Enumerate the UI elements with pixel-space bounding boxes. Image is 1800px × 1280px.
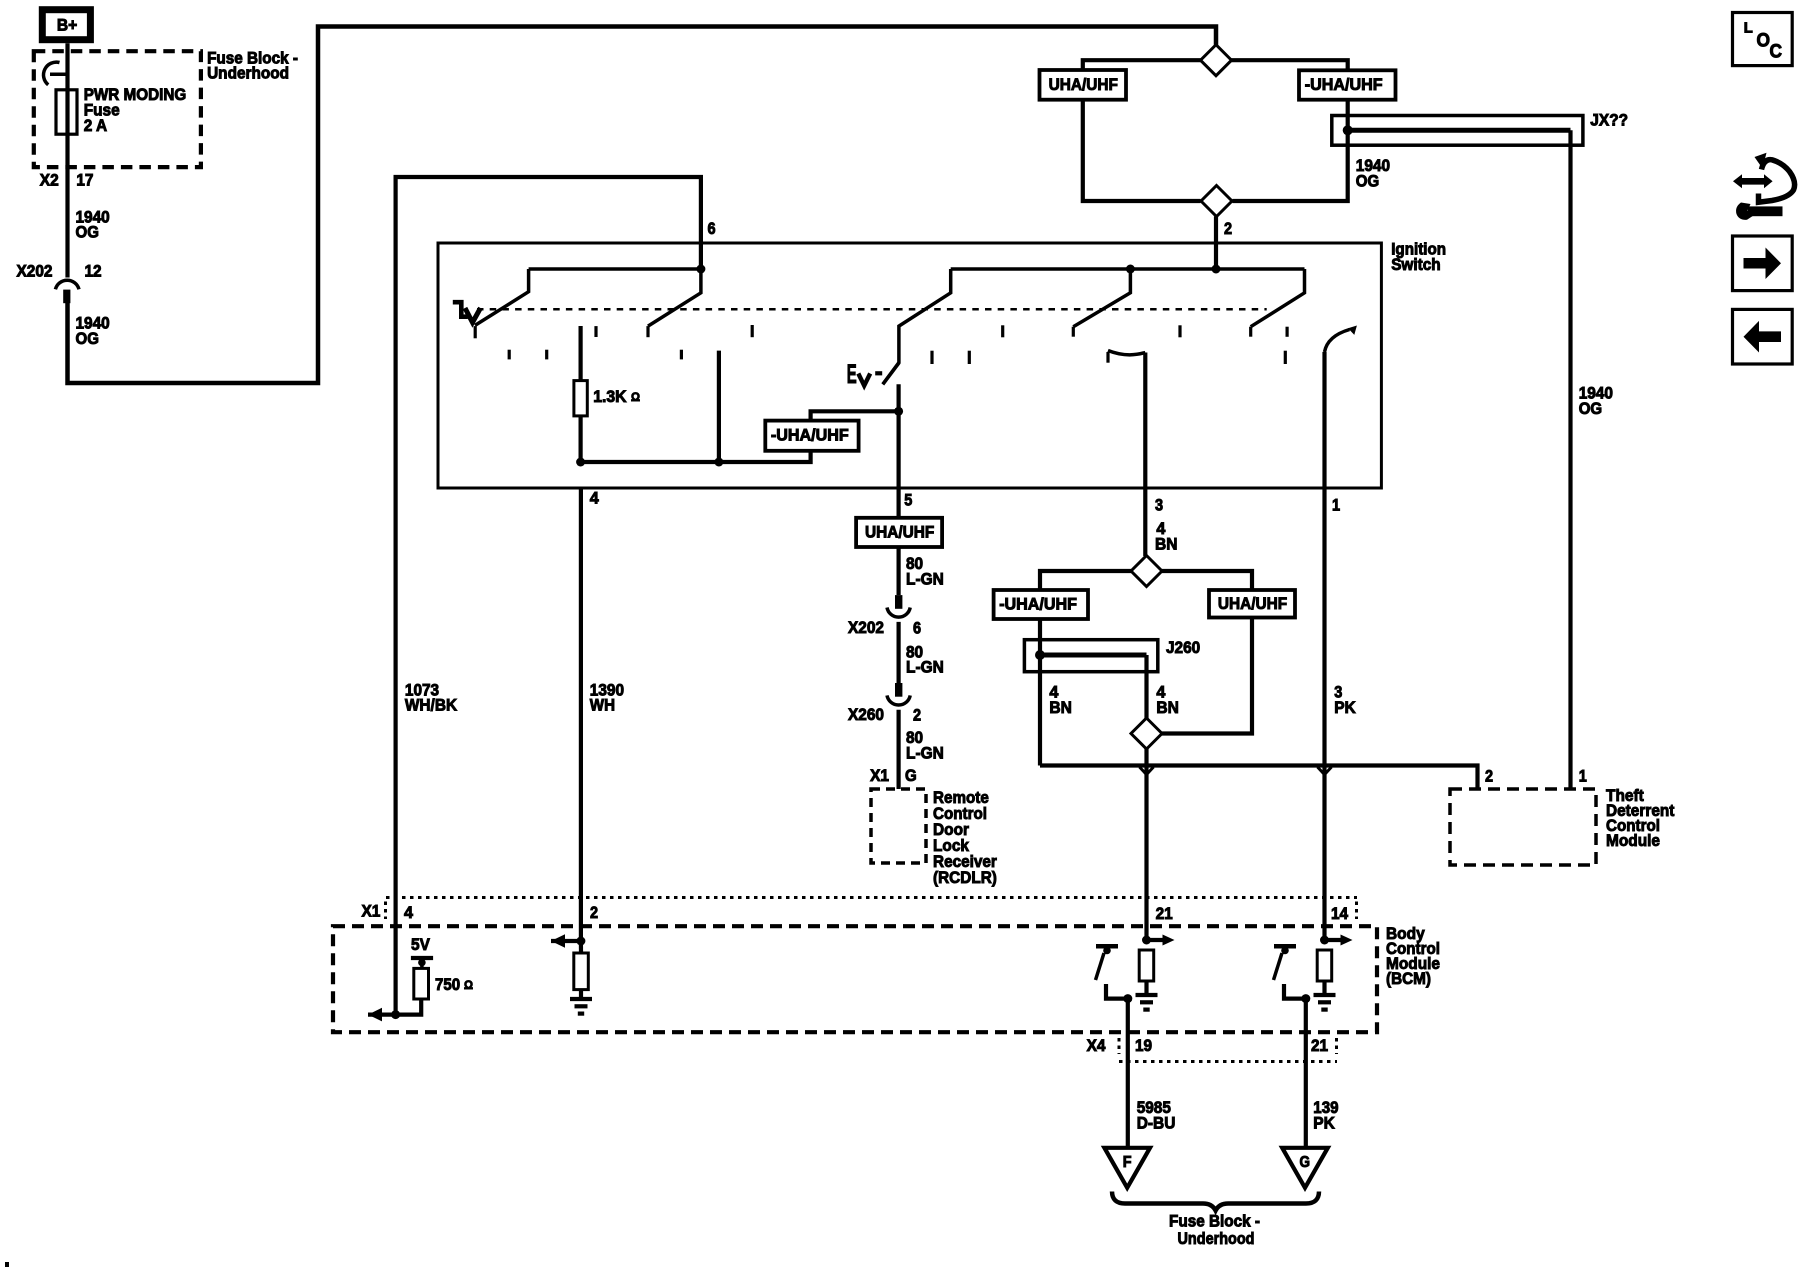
svg-text:G: G — [1300, 1154, 1311, 1171]
svg-text:1.3K: 1.3K — [593, 387, 627, 406]
label Body Control Module (BCM) — [1386, 924, 1440, 988]
svg-text:OG: OG — [76, 329, 99, 348]
resistor (pin 14) — [1317, 950, 1332, 981]
svg-text:-UHA/UHF: -UHA/UHF — [999, 595, 1077, 614]
wire JX bar down to theft module pin 1 — [1568, 130, 1572, 789]
svg-text:PK: PK — [1334, 698, 1356, 717]
-UHA/UHF option box (top) — [1299, 70, 1396, 99]
wire to X202 — [896, 547, 900, 595]
wire through fuse to X2 — [65, 90, 69, 278]
BCM pin14: wire junction — [1320, 936, 1329, 945]
wire ignition pin 4 down to BCM pin 2 — [579, 488, 583, 941]
resistor lead — [1322, 981, 1326, 993]
svg-text:5V: 5V — [411, 935, 430, 954]
wire X202 to X260 — [896, 622, 900, 683]
svg-text:Underhood: Underhood — [1178, 1229, 1255, 1248]
svg-text:OG: OG — [1356, 172, 1379, 191]
svg-text:Fuse Block -: Fuse Block - — [1169, 1211, 1260, 1230]
ignition switch box — [438, 243, 1381, 488]
svg-text:OG: OG — [1579, 399, 1602, 418]
svg-text:BN: BN — [1156, 698, 1179, 717]
wire top diamond left to UHA/UHF — [1083, 60, 1201, 70]
svg-text:17: 17 — [76, 170, 93, 189]
label Theft Deterrent Control Module — [1606, 786, 1675, 850]
connector X260 pin 2 (inline) — [887, 683, 910, 705]
LOC reference box — [1733, 13, 1793, 66]
svg-text:2 A: 2 A — [84, 116, 107, 135]
hotlink scribble icon — [1733, 153, 1795, 220]
battery feed B+ — [42, 10, 90, 40]
X4 dotted separator right — [1335, 1038, 1338, 1054]
theft deterrent control module dashed box — [1450, 789, 1596, 865]
svg-text:OG: OG — [76, 223, 99, 242]
svg-text:F: F — [1123, 1154, 1132, 1171]
wire BCM X4 pin19 down to F — [1126, 999, 1130, 1148]
svg-text:Switch: Switch — [1391, 255, 1441, 274]
contact ticks row 1 — [594, 326, 597, 337]
labels X1 G (RCDLR pin) — [870, 766, 917, 785]
svg-text:G: G — [905, 766, 917, 785]
resistor 1.3K — [574, 381, 587, 416]
junction bus bar J260 — [1024, 640, 1157, 672]
wire B+ down to fuse — [65, 43, 69, 90]
arrow out (pin 4) — [368, 1008, 382, 1022]
pin 5 wire inside box — [896, 384, 900, 488]
label 80 L-GN (3) — [906, 728, 944, 762]
svg-text:2: 2 — [1224, 219, 1232, 238]
wire lower diamond to ignition switch pin 2 — [1214, 217, 1218, 270]
label Remote Control Door Lock Receiver (RCDLR) — [933, 788, 997, 887]
splice diamond (top) — [1201, 45, 1232, 76]
labels X260 2 — [848, 705, 921, 725]
ground (pin 14) — [1314, 993, 1336, 997]
splice diamond (upper right, to ignition pin 2) — [1201, 186, 1232, 217]
X1 dotted separator — [384, 902, 387, 920]
svg-text:X1: X1 — [362, 902, 381, 921]
svg-text:6: 6 — [913, 619, 921, 638]
svg-text:21: 21 — [1156, 904, 1173, 923]
UHA/UHF option box (middle) — [1209, 590, 1295, 618]
labels X202 12 (left) — [17, 261, 102, 280]
fuse clip hook — [44, 62, 60, 85]
svg-text:E: E — [847, 359, 857, 389]
wire diamond left to -UHA/UHF (middle) — [1040, 571, 1131, 590]
svg-text:2: 2 — [590, 903, 598, 922]
back arrow box — [1733, 309, 1793, 364]
off-page triangle G — [1282, 1148, 1328, 1188]
label 1940 OG (upper left) — [76, 207, 110, 241]
center rotary contact arc (pin 3) — [1108, 351, 1145, 355]
driver switch (pin 21) — [1096, 946, 1133, 1003]
pin2 signal arrow — [551, 939, 581, 943]
spring return arc with arrow (pin 1) — [1325, 330, 1350, 353]
wire -UHA/UHF down into J260 — [1038, 619, 1042, 766]
label 80 L-GN (2) — [906, 642, 944, 676]
theft bus wire — [1040, 766, 1478, 790]
connector X202 pin 6 (inline, middle) — [887, 595, 910, 617]
connector X4 dotted row — [1119, 1060, 1337, 1063]
wire X202 down, right, and up to top bus — [68, 27, 1217, 384]
label 1073 WH/BK — [405, 680, 458, 714]
svg-text:1: 1 — [1332, 496, 1340, 515]
svg-text:UHA/UHF: UHA/UHF — [1218, 594, 1287, 613]
fuse PWR MODING 2A body — [56, 90, 77, 134]
switch lever 5 (right) — [1251, 269, 1305, 327]
svg-text:O: O — [1757, 31, 1771, 52]
svg-text:X202: X202 — [17, 261, 53, 280]
page period mark — [5, 1262, 9, 1267]
UHA/UHF option box (pin 5) — [856, 518, 942, 547]
ground (pin 2) — [570, 997, 592, 1001]
label PWR MODING Fuse 2 A — [84, 85, 187, 135]
driver switch (pin 14) — [1274, 946, 1311, 1003]
body control module dashed box — [333, 926, 1377, 1032]
pin 3 wire inside box — [1143, 353, 1147, 489]
Ev position symbol — [847, 359, 883, 389]
pin14 signal arrow — [1325, 938, 1342, 942]
ground (pin 21) — [1136, 993, 1158, 997]
svg-text:UHA/UHF: UHA/UHF — [1049, 75, 1118, 94]
svg-text:L: L — [1744, 20, 1753, 37]
lever 1 contact tick — [474, 326, 477, 338]
wire X260 to RCDLR — [896, 710, 900, 789]
lever 5 contact tick — [1249, 327, 1252, 337]
BCM pin2: wire down — [579, 941, 583, 953]
ignition internal top bus (right group) — [951, 267, 1305, 271]
svg-text:2: 2 — [1485, 767, 1493, 786]
X4 dotted separator left — [1118, 1038, 1121, 1054]
svg-text:1: 1 — [1579, 767, 1587, 786]
svg-text:5: 5 — [904, 491, 912, 510]
lever 4 contact tick — [1072, 327, 1075, 337]
contact ticks row 2 — [508, 350, 511, 360]
svg-text:WH: WH — [590, 696, 615, 715]
label 1940 OG (lower left) — [76, 314, 110, 348]
connector X1 dotted row — [386, 896, 1357, 899]
svg-text:Module: Module — [1606, 831, 1660, 850]
resistor (pin 2) — [574, 953, 589, 990]
svg-text:JX??: JX?? — [1590, 111, 1628, 130]
UHA/UHF option box (top) — [1040, 70, 1127, 100]
svg-text:21: 21 — [1311, 1036, 1328, 1055]
resistor lead to arrow line — [368, 999, 421, 1015]
switch lever 3 (to Ev contact) — [883, 269, 951, 384]
label Fuse Block - Underhood (top) — [207, 49, 298, 83]
svg-text:6: 6 — [708, 219, 716, 238]
label 1.3K ohm — [593, 387, 640, 406]
-UHA/UHF option box (middle) — [994, 590, 1088, 619]
switch lever 4 (center) — [1073, 269, 1130, 327]
wire J260 down to diamond 2 — [1144, 655, 1148, 719]
svg-text:X2: X2 — [40, 170, 59, 189]
svg-text:BN: BN — [1155, 534, 1178, 553]
BCM pin21: wire junction — [1142, 936, 1151, 945]
wire top diamond right to -UHA/UHF — [1232, 60, 1348, 70]
wire diamond 2 down across bus to BCM pin 21 — [1144, 748, 1148, 940]
wire UHA/UHF (middle) down to diamond 2 — [1162, 618, 1252, 734]
RCDLR dashed box — [871, 789, 926, 863]
switch lever 1 — [475, 269, 529, 325]
svg-text:L-GN: L-GN — [906, 570, 944, 589]
svg-text:UHA/UHF: UHA/UHF — [865, 522, 934, 541]
Ev moving contact lever — [883, 363, 899, 385]
wire -UHA/UHF down through JX bar to lower diamond — [1233, 100, 1348, 201]
svg-text:(BCM): (BCM) — [1386, 969, 1431, 988]
label 139 PK — [1313, 1098, 1338, 1132]
splice diamond (lower) — [1131, 718, 1162, 749]
internal bus to -UHA/UHF — [581, 451, 811, 462]
label 5985 D-BU — [1137, 1098, 1176, 1132]
wire ignition pin 5 down — [896, 488, 900, 518]
resistor lead — [1144, 981, 1148, 993]
label 1940 OG (below -UHA/UHF) — [1356, 156, 1390, 190]
resistor 1.3K leg wire — [578, 326, 582, 462]
svg-text:3: 3 — [1155, 496, 1163, 515]
label 3 PK — [1334, 683, 1356, 717]
svg-text:WH/BK: WH/BK — [405, 696, 458, 715]
ignition dashed travel line — [477, 308, 1267, 311]
splice diamond (pin 3) — [1131, 556, 1162, 587]
fuse block underhood dashed box — [34, 51, 201, 167]
label 1390 WH — [590, 680, 624, 714]
off-page triangle F — [1104, 1148, 1150, 1188]
svg-text:PK: PK — [1313, 1113, 1335, 1132]
svg-text:4: 4 — [590, 488, 600, 507]
svg-text:Ω: Ω — [631, 390, 640, 404]
svg-text:X202: X202 — [848, 618, 884, 637]
label 4 BN (pin 3 upper) — [1155, 519, 1178, 553]
bus merge V at pin21 wire — [1140, 767, 1154, 775]
svg-text:X260: X260 — [848, 705, 884, 724]
switch lever 2 — [648, 269, 701, 326]
svg-text:B+: B+ — [57, 16, 77, 35]
svg-text:Underhood: Underhood — [207, 64, 289, 83]
switch position symbol Tv (left) — [453, 302, 481, 322]
svg-text:(RCDLR): (RCDLR) — [933, 868, 997, 887]
label 750 ohm — [435, 975, 473, 994]
svg-text:-UHA/UHF: -UHA/UHF — [771, 425, 849, 444]
svg-text:14: 14 — [1331, 904, 1349, 923]
wire pin 6 riser and top-left feed to BCM pin 4 — [396, 177, 701, 898]
pin 1 wire inside box — [1322, 352, 1326, 488]
wire -UHA/UHF top to pin 5 node — [811, 411, 899, 420]
resistor (pin 21) — [1139, 950, 1154, 981]
pin21 signal arrow — [1147, 938, 1164, 942]
connector X202 pin 12 (inline, left) — [55, 280, 79, 303]
svg-text:J260: J260 — [1166, 638, 1200, 657]
lever 2 contact tick — [646, 326, 649, 337]
ignition internal top bus (left group) — [529, 267, 701, 271]
svg-text:X1: X1 — [870, 766, 889, 785]
svg-text:L-GN: L-GN — [906, 744, 944, 763]
svg-text:-UHA/UHF: -UHA/UHF — [1305, 75, 1383, 94]
wire BCM X4 pin21 down to G — [1304, 999, 1308, 1148]
internal wire row2 to bus — [717, 351, 721, 462]
labels X202 6 (middle) — [848, 618, 921, 638]
svg-text:750: 750 — [435, 975, 460, 994]
5V supply bar — [411, 935, 433, 968]
wire UHA/UHF down to lower splice diamond — [1083, 100, 1201, 201]
svg-text:C: C — [1770, 42, 1783, 63]
svg-text:19: 19 — [1135, 1036, 1152, 1055]
svg-text:X4: X4 — [1087, 1036, 1106, 1055]
svg-text:2: 2 — [913, 706, 921, 725]
brace fuse block underhood — [1112, 1192, 1319, 1211]
resistor lead — [579, 990, 583, 997]
svg-text:4: 4 — [404, 903, 414, 922]
svg-text:L-GN: L-GN — [906, 658, 944, 677]
-UHA/UHF option box (inside ignition) — [765, 421, 858, 451]
connector X2 pin 17 labels — [40, 170, 94, 189]
svg-text:D-BU: D-BU — [1137, 1113, 1176, 1132]
svg-text:BN: BN — [1049, 698, 1072, 717]
label 80 L-GN (1) — [906, 554, 944, 588]
wire ignition pin 3 down to diamond — [1143, 488, 1147, 556]
forward arrow box — [1733, 236, 1793, 291]
X1 dotted separator right — [1355, 902, 1358, 920]
svg-text:Ω: Ω — [464, 978, 473, 992]
label 1940 OG (right, on JX wire) — [1579, 384, 1613, 418]
junction bus bar JX?? — [1332, 116, 1583, 146]
BCM pin4: wire to signal arrow — [394, 898, 398, 1015]
wire diamond right to UHA/UHF (middle) — [1162, 571, 1252, 590]
label 4 BN (right branch) — [1156, 683, 1179, 717]
label 4 BN (left branch) — [1049, 683, 1072, 717]
label Fuse Block - Underhood (bottom) — [1169, 1211, 1260, 1248]
wire ignition pin 1 down to BCM pin 14 — [1322, 488, 1326, 940]
svg-text:12: 12 — [85, 261, 102, 280]
resistor 750 ohm — [414, 968, 429, 999]
label Ignition Switch — [1391, 240, 1446, 274]
bus merge V at pin14 wire — [1318, 767, 1332, 775]
